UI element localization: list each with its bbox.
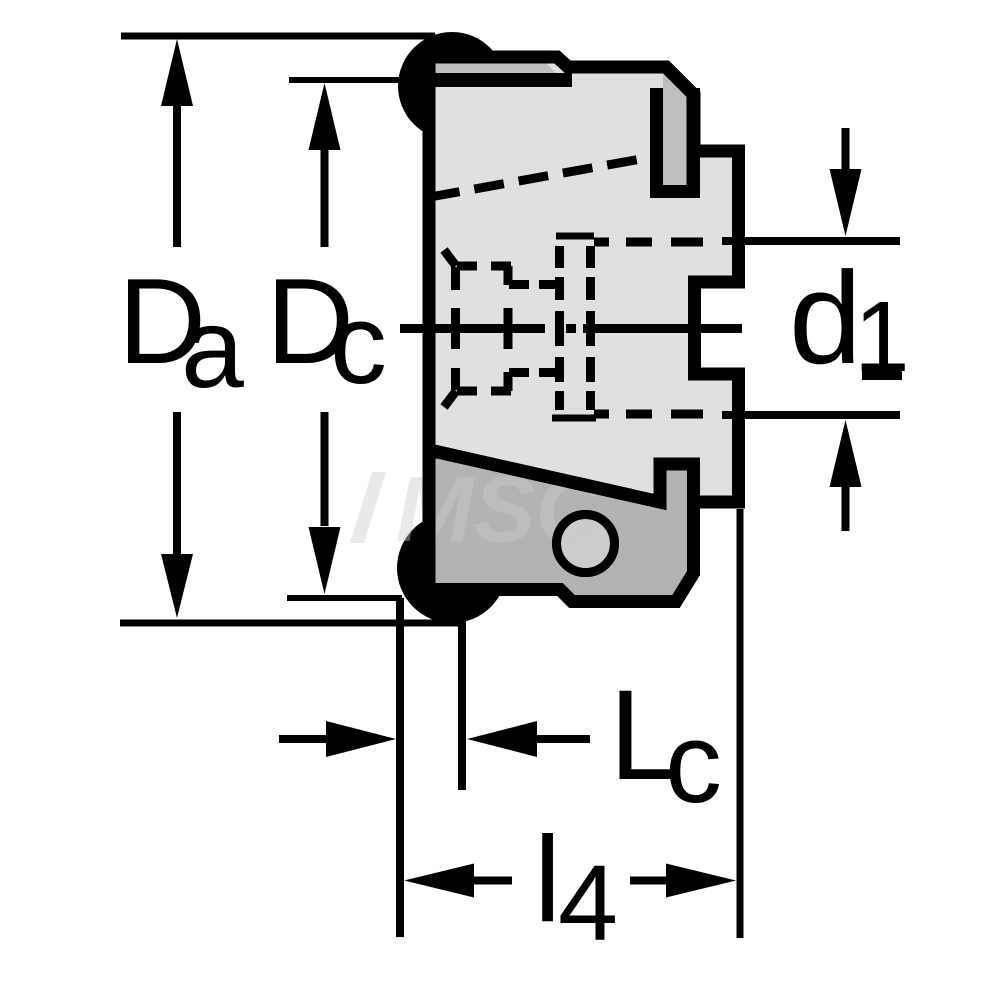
slot tab face [663,74,687,185]
keyway strip verticals [555,246,564,410]
bore hidden top [457,262,511,271]
Da up arrow [161,39,193,106]
insert holder [429,450,694,602]
top round insert [398,32,506,140]
l4 left arrow [404,864,474,898]
bevel restroke [664,65,696,97]
watermark MSC [350,457,605,561]
Da down arrow [173,412,181,557]
edge band under strip [425,73,572,87]
hidden lines group [430,157,652,410]
ext line x740 [737,509,744,938]
bore chamfer tick top [444,250,456,266]
centerline [400,324,742,333]
dimension d1 down arrow [842,128,850,170]
Dc bottom line [287,595,402,601]
ext line x400 [396,598,404,937]
d1 bottom line [722,411,900,419]
d1 dashed top inside [594,238,703,247]
svg-text:d: d [789,244,862,391]
keyway cap top [556,233,594,240]
restroke holder outline [429,450,694,602]
restroke body outline [429,57,739,502]
l4 right arrow [630,877,668,885]
cutter body [429,57,739,502]
top face bevel strip [433,63,556,73]
keyway cap bottom [552,415,596,422]
Da bottom line [120,620,462,627]
dashed diagonal [430,157,652,197]
d1 up arrow [830,420,862,487]
bottom round insert [397,513,507,623]
screw hole [557,515,615,573]
dimension Dc top line [289,77,420,83]
bore hidden bottom [457,387,511,396]
svg-text:c: c [330,281,387,408]
top-right slot [650,88,700,198]
bore vertical dashed mid [504,308,513,349]
Dc up arrow [309,83,341,150]
svg-text:a: a [181,285,244,411]
Dc down arrow [321,412,329,526]
svg-text:c: c [665,700,722,827]
d1 top line [722,237,900,245]
Lc right arrow pointing left [467,721,537,757]
ext line x462 [458,620,466,790]
bore vertical dashed left [451,267,460,390]
Lc left arrow pointing right [279,735,330,743]
bore chamfer tick bottom [444,391,456,407]
restroke screw hole [557,515,615,573]
svg-text:4: 4 [558,842,618,963]
d1 dashed bottom inside [594,410,703,419]
dimension Da top line [121,33,435,40]
